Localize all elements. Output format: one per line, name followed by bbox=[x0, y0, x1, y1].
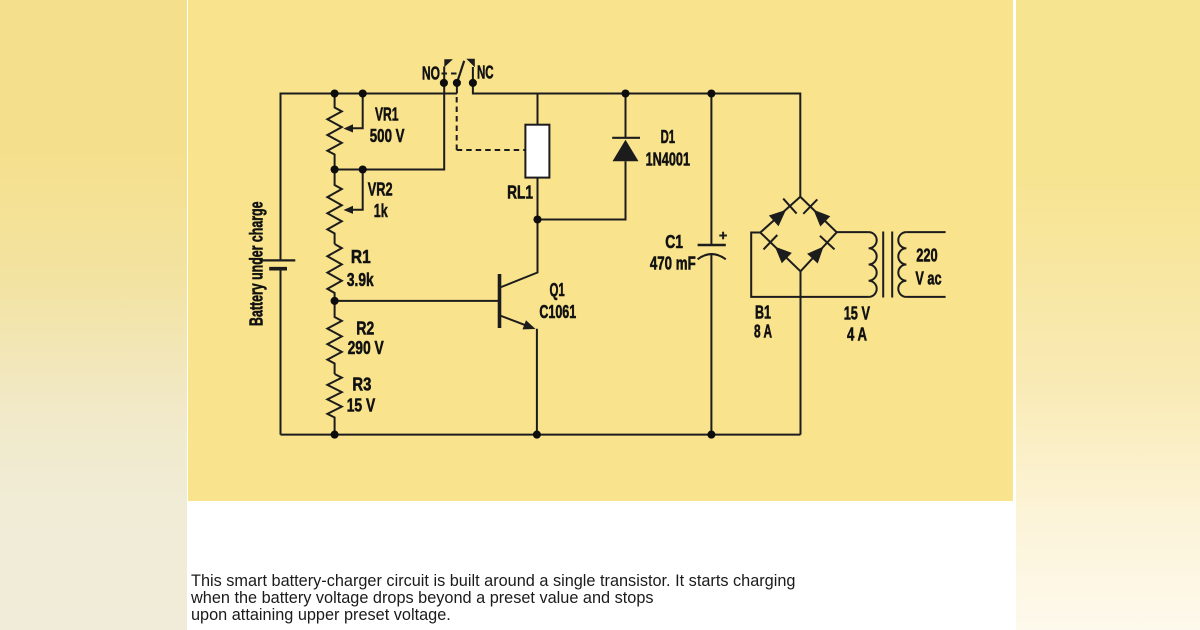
node D1 top bbox=[621, 89, 629, 97]
svg-text:500 V: 500 V bbox=[370, 125, 405, 146]
svg-text:VR2: VR2 bbox=[368, 179, 393, 200]
svg-text:8 A: 8 A bbox=[754, 321, 772, 342]
wire primary bottom lead bbox=[906, 296, 945, 298]
wire primary top lead bbox=[906, 231, 945, 233]
svg-text:V ac: V ac bbox=[915, 268, 941, 289]
switch NC flag bbox=[466, 59, 475, 68]
node C1 top bbox=[707, 89, 715, 97]
VR1 wiper bbox=[350, 94, 363, 129]
dashed relay linkage vertical bbox=[456, 97, 458, 150]
left gutter gradient bbox=[0, 0, 187, 630]
switch blade bbox=[457, 61, 464, 83]
svg-text:RL1: RL1 bbox=[507, 182, 533, 203]
resistor R1 bbox=[327, 244, 341, 301]
resistor R2 bbox=[327, 301, 341, 374]
relay coil RL1 bbox=[525, 125, 549, 178]
bridge cathode tick bottom-left bbox=[764, 235, 778, 249]
potentiometer VR1 bbox=[327, 94, 341, 170]
C1 curved plate bbox=[698, 254, 726, 259]
svg-text:3.9k: 3.9k bbox=[347, 269, 374, 290]
battery long plate bbox=[260, 259, 296, 261]
wire RL1 bottom lead to node bbox=[537, 178, 539, 220]
wire NO contact stub bbox=[443, 67, 445, 84]
svg-text:Battery under charge: Battery under charge bbox=[246, 202, 267, 327]
capacitor C1 bbox=[698, 232, 727, 260]
svg-text:NC: NC bbox=[477, 62, 494, 83]
wire C1 top lead bbox=[710, 94, 712, 246]
node switch NC bbox=[469, 79, 477, 87]
bridge diode arrow bottom-right bbox=[807, 247, 824, 264]
wire D1 cathode lead bbox=[625, 94, 627, 138]
wire Q1 base bbox=[335, 300, 498, 302]
svg-text:R3: R3 bbox=[352, 374, 371, 395]
svg-text:15 V: 15 V bbox=[347, 395, 376, 416]
svg-text:1N4001: 1N4001 bbox=[646, 149, 690, 170]
svg-text:R1: R1 bbox=[351, 246, 371, 267]
wire RL1 top lead bbox=[537, 94, 539, 125]
right gutter gradient bbox=[1016, 0, 1200, 630]
transistor Q1 bbox=[500, 274, 536, 329]
svg-text:290 V: 290 V bbox=[348, 337, 385, 358]
node VR2 tap right bbox=[359, 165, 367, 173]
svg-text:15 V: 15 V bbox=[844, 303, 871, 324]
node switch NO bbox=[440, 79, 448, 87]
svg-text:C1: C1 bbox=[665, 231, 683, 252]
yellow schematic panel bbox=[188, 0, 1013, 501]
node RL1 D1 junction bbox=[533, 215, 541, 223]
svg-text:D1: D1 bbox=[661, 126, 676, 147]
bridge rectifier B1 bbox=[760, 197, 836, 271]
switch NO flag bbox=[444, 59, 453, 67]
node bottom rail C1 bbox=[707, 431, 715, 439]
C1 plus sign bbox=[719, 235, 727, 237]
dashed switch linkage bbox=[442, 73, 458, 75]
wire node to D1 anode bbox=[538, 161, 626, 219]
svg-text:NO: NO bbox=[422, 63, 440, 84]
D1 triangle bbox=[613, 140, 639, 162]
node bottom rail emitter bbox=[533, 431, 541, 439]
node bottom rail R3 bbox=[331, 431, 339, 439]
bridge diode arrow bottom-left bbox=[775, 247, 792, 264]
C1 top plate bbox=[698, 244, 726, 246]
node Q1 base junction bbox=[331, 297, 339, 305]
wire bridge bottom lead bbox=[800, 271, 802, 434]
node top rail VR1 wiper bbox=[359, 89, 367, 97]
svg-text:C1061: C1061 bbox=[539, 301, 576, 322]
svg-text:1k: 1k bbox=[374, 200, 388, 221]
svg-text:B1: B1 bbox=[755, 302, 771, 323]
svg-text:R2: R2 bbox=[356, 318, 374, 339]
battery short plate bbox=[269, 267, 287, 271]
bridge cathode tick top-right bbox=[803, 199, 817, 213]
wire bottom rail bbox=[281, 434, 801, 436]
svg-text:4 A: 4 A bbox=[847, 324, 867, 345]
wire Q1 emitter lead bbox=[536, 329, 538, 435]
wire battery bottom lead bbox=[280, 270, 282, 435]
Q1 base bar bbox=[498, 274, 502, 328]
wire top left (battery plus rail) bbox=[281, 94, 457, 261]
wire switch common stub bbox=[456, 83, 458, 94]
D1 cathode bar bbox=[612, 137, 640, 139]
wire bridge left vertex to transformer secondary bottom bbox=[751, 233, 868, 297]
bridge cathode tick bottom-right bbox=[820, 236, 835, 250]
node switch common bbox=[453, 79, 461, 87]
svg-text:470 mF: 470 mF bbox=[650, 253, 696, 274]
bridge diamond bbox=[760, 197, 836, 271]
wire bridge right vertex to transformer secondary top bbox=[837, 231, 869, 233]
bridge diode arrow top-right bbox=[814, 210, 831, 227]
node VR2 tap left bbox=[331, 165, 339, 173]
svg-text:Q1: Q1 bbox=[550, 279, 565, 300]
dashed relay linkage horizontal bbox=[457, 149, 526, 151]
transformer primary winding bbox=[898, 232, 906, 297]
transformer core lines bbox=[882, 232, 884, 298]
bridge cathode tick top-left bbox=[783, 199, 796, 214]
caption text bbox=[191, 573, 871, 624]
svg-text:220: 220 bbox=[916, 245, 937, 266]
wire NC contact to top right rail bbox=[473, 67, 800, 197]
wire C1 bottom lead bbox=[710, 254, 712, 435]
diode D1 bbox=[612, 138, 640, 162]
VR2 wiper bbox=[350, 170, 363, 210]
wire Q1 collector bbox=[500, 220, 538, 288]
resistor R3 bbox=[327, 374, 341, 435]
Q1 emitter arrowhead bbox=[523, 320, 536, 329]
potentiometer VR2 bbox=[327, 170, 341, 245]
Q1 emitter diagonal bbox=[500, 316, 531, 328]
svg-text:VR1: VR1 bbox=[375, 104, 399, 125]
transformer secondary winding bbox=[869, 232, 877, 297]
bridge diode arrow top-left bbox=[769, 210, 786, 226]
wire VR2 tap to NO contact riser bbox=[335, 83, 445, 170]
node top rail VR1 bbox=[331, 89, 339, 97]
